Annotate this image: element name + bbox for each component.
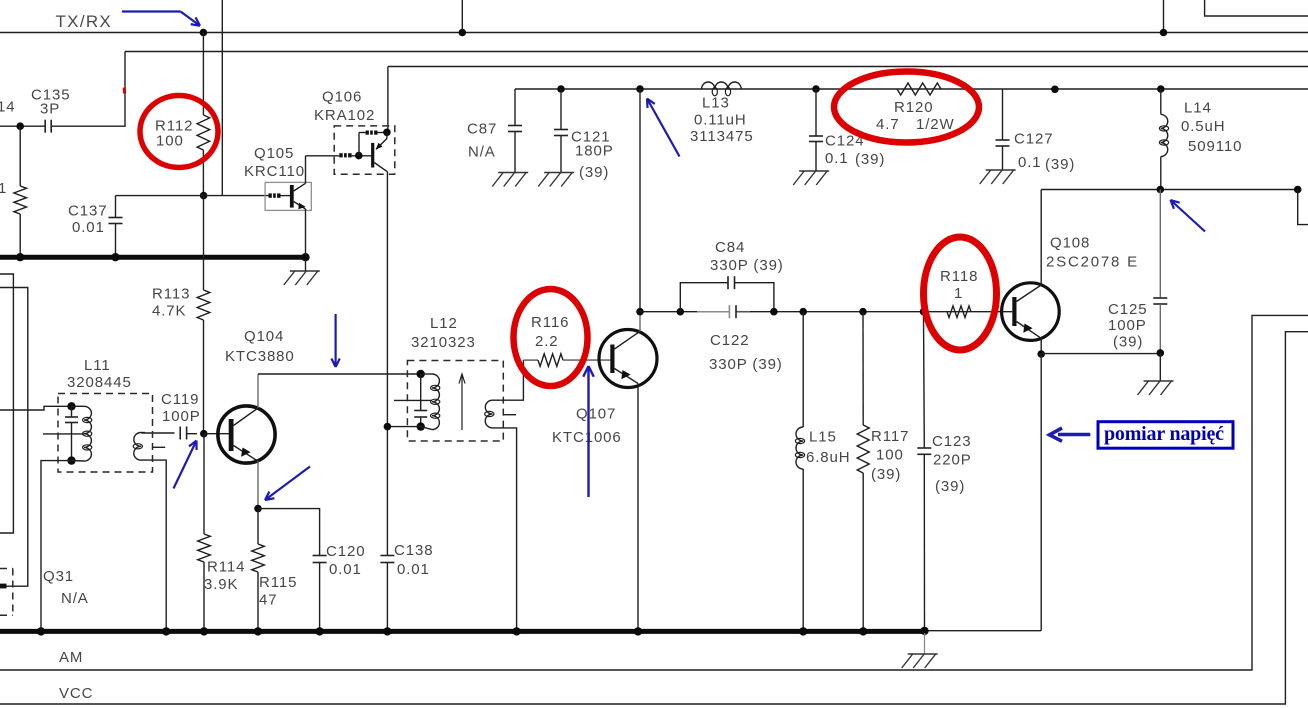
resistor left edge (partial) (14, 126, 27, 255)
wire C120 branch (258, 509, 320, 556)
node dot L11 primary bottom (67, 456, 75, 464)
inductor L14 (1159, 89, 1168, 190)
svg-text:Q108: Q108 (1050, 234, 1090, 251)
capacitor C123 (917, 312, 931, 631)
node dot bus end x=305 (Q105 emitter) (301, 253, 309, 261)
wire L11 primary bottom to bus (41, 461, 72, 632)
annotation red ellipse around R120 (834, 72, 979, 143)
label L11 part (67, 374, 132, 391)
node junction dot TX/RX x=462 (459, 29, 467, 37)
label R116 (531, 314, 569, 331)
wire Q106 emitter resistor to emitter (378, 132, 387, 134)
svg-text:KTC1006: KTC1006 (552, 429, 622, 446)
capacitor C125 (1153, 190, 1167, 353)
label VCC (59, 685, 93, 702)
svg-text:0.11uH: 0.11uH (694, 111, 747, 128)
node bus dot C138 (383, 627, 391, 635)
label C120 (326, 543, 365, 560)
wire long vertical x=640 (639, 89, 641, 312)
wire R112 branch (202, 33, 204, 196)
svg-text:100P: 100P (162, 408, 201, 425)
label C137 value (72, 219, 105, 236)
label C120 value (329, 561, 362, 578)
node dot Q104 emitter junction (254, 505, 262, 513)
node bus dot R114 (200, 627, 208, 635)
wire L11 primary top from left edge (0, 406, 72, 410)
svg-text:R116: R116 (531, 314, 569, 331)
label C121 note (579, 164, 609, 181)
label R120 value (876, 116, 955, 133)
transistor Q107 base bar (610, 345, 614, 374)
label R112 value (156, 132, 184, 149)
svg-text:0.01: 0.01 (329, 561, 362, 578)
wire left nested corner B (0, 288, 28, 587)
wire thick bus upper left (0, 255, 306, 260)
svg-text:3.9K: 3.9K (204, 576, 238, 593)
capacitor C121 (554, 89, 568, 173)
label C84 value (710, 257, 784, 274)
wire Q107/Q108 net y=311.7 (640, 311, 1012, 313)
svg-text:R117: R117 (871, 428, 909, 445)
svg-text:L13: L13 (702, 94, 730, 111)
label partial 1 (0, 180, 7, 197)
transistor Q106 emitter arrow (PNP) (376, 132, 387, 149)
svg-text:(39): (39) (1113, 333, 1143, 350)
node dot L12 primary top (417, 370, 425, 378)
svg-text:2.2: 2.2 (535, 333, 559, 350)
wire Q105 base internal (281, 195, 291, 197)
annotation blue arrow TX/RX (122, 12, 200, 26)
label R118 value (954, 285, 963, 302)
label C127 (1014, 130, 1053, 147)
svg-text:R115: R115 (259, 574, 297, 591)
label R115 (259, 574, 297, 591)
node dot C125 bottom (1157, 349, 1165, 357)
svg-text:C120: C120 (326, 543, 365, 560)
node bus dot R115 (254, 627, 262, 635)
node dot Q107 collector junction (636, 308, 644, 316)
node junction dot TX/RX x=1163 (1160, 29, 1168, 37)
node bus dot Q107 emitter (634, 627, 642, 635)
label R120 (894, 99, 933, 116)
wire Q104 collector to L12 (258, 373, 421, 375)
ground C87 (492, 173, 528, 187)
wire third horizontal rail (from Q106 emitter) (388, 67, 1308, 132)
annotation red ellipse around R118 (924, 237, 997, 350)
annotation red ellipse around R116 (514, 289, 588, 386)
label Q108 part (1046, 253, 1139, 270)
svg-text:3208445: 3208445 (67, 374, 132, 391)
annotation blue arrow at L14 bottom (1171, 200, 1206, 232)
resistor R120 (897, 83, 941, 95)
wire L12 primary bottom to Q106 collector line (387, 426, 420, 428)
svg-text:509110: 509110 (1188, 138, 1242, 155)
label partial 14 (0, 98, 16, 115)
label C122 (710, 332, 749, 349)
label C125 note (1113, 333, 1143, 350)
label C135 (31, 86, 70, 103)
svg-text:14: 14 (0, 98, 16, 115)
label R117 note (871, 466, 901, 483)
transistor Q105 collector (294, 156, 306, 191)
wire Q106 collector down to C138 (386, 172, 388, 556)
wire R115 branch (257, 509, 259, 544)
resistor R118 (947, 306, 971, 318)
label C84 (715, 239, 745, 256)
svg-text:R118: R118 (940, 268, 978, 285)
label R117 (871, 428, 909, 445)
label C125 value (1108, 317, 1147, 334)
svg-text:Q31: Q31 (43, 568, 74, 585)
svg-text:0.01: 0.01 (72, 219, 105, 236)
wire L12 secondary top to R116 (493, 360, 524, 400)
label Q107 part (552, 429, 622, 446)
ground bottom bus (902, 633, 938, 668)
svg-text:L15: L15 (809, 428, 837, 445)
label L11 (84, 357, 111, 374)
svg-text:100: 100 (156, 132, 184, 149)
node dot L12 primary bottom (417, 422, 425, 430)
svg-text:Q104: Q104 (244, 328, 284, 345)
svg-text:C119: C119 (161, 391, 199, 408)
transistor Q31 base bar (partial) (0, 584, 7, 589)
label Q31 value (61, 590, 89, 607)
annotation blue arrow at C119 (174, 441, 197, 489)
svg-text:KRA102: KRA102 (314, 107, 375, 124)
transistor Q104 base bar (229, 419, 234, 451)
label C124 (825, 132, 864, 149)
svg-text:Q107: Q107 (576, 405, 616, 422)
transistor Q106 base resistor (339, 153, 351, 158)
resistor R112 (197, 115, 210, 150)
label C127 value (1018, 154, 1042, 171)
svg-text:VCC: VCC (59, 685, 93, 702)
label R115 value (259, 591, 278, 608)
svg-text:330P (39): 330P (39) (710, 257, 784, 274)
inductor L15 (795, 312, 804, 632)
transistor Q105 base resistor (269, 193, 281, 198)
wire L12 primary tap (394, 399, 432, 401)
label Q31 (43, 568, 74, 585)
capacitor C119 (142, 427, 198, 440)
capacitor C122 (697, 305, 750, 318)
label C123 value (933, 451, 972, 468)
inductor L11 secondary winding (133, 433, 142, 461)
svg-text:100P: 100P (1108, 317, 1147, 334)
svg-text:C84: C84 (715, 239, 745, 256)
node bus dot L15 (799, 627, 807, 635)
svg-text:1: 1 (954, 285, 963, 302)
wire L11 primary tap (43, 433, 84, 435)
label R114 (207, 558, 245, 575)
label Q106 part (314, 107, 375, 124)
label L12 part (411, 334, 476, 351)
resistor R114 (198, 434, 211, 632)
label L14 (1184, 99, 1212, 116)
node bus dot L11 sec gnd (162, 627, 170, 635)
label Q108 (1050, 234, 1090, 251)
svg-text:(39): (39) (579, 164, 609, 181)
annotation pomiar napiec box (1098, 422, 1233, 449)
label L14 value (1181, 118, 1226, 135)
ground C127 (980, 170, 1016, 184)
svg-text:L11: L11 (84, 357, 111, 374)
svg-text:C137: C137 (68, 202, 107, 219)
node dot Q106 base (355, 152, 363, 160)
annotation blue arrow pomiar (1050, 428, 1091, 441)
label L13 (702, 94, 730, 111)
label L15 value (806, 449, 851, 466)
label AM (59, 649, 83, 666)
node dot L14 top (1157, 85, 1165, 93)
capacitor C87 (508, 89, 522, 173)
ground C125 (1138, 353, 1174, 395)
svg-text:N/A: N/A (468, 143, 496, 160)
transistor Q105 emitter (294, 202, 306, 255)
transistor Q108 base bar (1012, 297, 1016, 326)
svg-text:KRC110: KRC110 (244, 163, 305, 180)
wire Q105 collector to Q106 base (306, 155, 340, 157)
annotation red tick (123, 88, 126, 94)
label Q105 part (244, 163, 305, 180)
svg-text:L14: L14 (1184, 99, 1212, 116)
wire left nested corner A (0, 274, 13, 533)
svg-text:47: 47 (259, 591, 278, 608)
svg-text:(39): (39) (1045, 156, 1075, 173)
label R114 value (204, 576, 238, 593)
wire second horizontal rail (125, 51, 1308, 53)
transistor Q104 emitter (234, 446, 259, 509)
label C138 (394, 542, 433, 559)
wire L12 secondary bottom to bus (493, 428, 517, 631)
wire Q108 emitter down to bus (1040, 354, 1042, 631)
node dot C123 top (920, 308, 928, 316)
node dot L14 bottom (1157, 186, 1165, 194)
ground C124 (793, 171, 829, 185)
label C123 note (935, 478, 965, 495)
label R113 value (152, 302, 186, 319)
inductor L13 (702, 82, 742, 96)
svg-text:3113475: 3113475 (690, 128, 754, 145)
label net TX/RX (56, 12, 113, 31)
wire top stub at x=222 down to Q105 base wire (221, 0, 223, 196)
label L13 part (690, 128, 754, 145)
wire L12 tuning arrow (459, 374, 465, 430)
label R118 (940, 268, 978, 285)
ground under Q105 (284, 260, 320, 286)
label C122 value (709, 356, 783, 373)
transistor Q106 b-e resistor (366, 130, 378, 135)
label C119 value (162, 408, 201, 425)
wire Q108 collector net y=189.5 (1041, 189, 1298, 191)
svg-text:3P: 3P (40, 100, 60, 117)
wire main upper net y=89 (515, 88, 1308, 90)
wire top stub x=1163 (1163, 0, 1165, 33)
capacitor C127 (996, 89, 1010, 170)
svg-text:TX/RX: TX/RX (56, 12, 113, 31)
node dot L11 primary top (67, 402, 75, 410)
capacitor C135 (45, 120, 51, 133)
label L13 value (694, 111, 747, 128)
transistor Q107 collector (615, 312, 641, 349)
node bus dot C120 (315, 627, 323, 635)
node dot C84 left (677, 308, 685, 316)
svg-text:0.5uH: 0.5uH (1181, 118, 1226, 135)
svg-text:1/2W: 1/2W (916, 116, 955, 133)
svg-text:4.7K: 4.7K (152, 302, 186, 319)
inductor L11 primary winding (72, 406, 92, 461)
ground C121 (538, 173, 574, 187)
node dot C84 right (770, 308, 778, 316)
label Q104 (244, 328, 284, 345)
transistor Q31 dashed box (partial) (0, 569, 13, 616)
wire top-right corner (1205, 0, 1308, 16)
capacitor C120 (313, 556, 327, 632)
label C121 (571, 128, 610, 145)
svg-text:pomiar napięć: pomiar napięć (1104, 423, 1224, 445)
svg-text:Q106: Q106 (322, 88, 362, 105)
transistor Q105 box (265, 182, 311, 210)
wire Q104 base (204, 433, 229, 435)
label Q106 (322, 88, 362, 105)
inductor L12 secondary winding (485, 400, 494, 428)
capacitor C84 branch (680, 276, 774, 312)
svg-text:R113: R113 (152, 285, 190, 302)
label C121 value (575, 142, 614, 159)
annotation blue arrow up at Q107 base (583, 366, 594, 497)
svg-text:4.7: 4.7 (876, 116, 900, 133)
inductor L12 dashed box (407, 361, 503, 442)
node dot C124 top (812, 85, 820, 93)
wire L12 secondary stub (503, 414, 516, 416)
label R117 value (876, 446, 904, 463)
resistor R116 (523, 354, 610, 367)
wire thick bottom bus (0, 629, 925, 634)
label R113 (152, 285, 190, 302)
svg-text:(39): (39) (855, 151, 885, 168)
label L15 (809, 428, 837, 445)
wire Q108 emitter net (1041, 353, 1160, 355)
node junction dot TX/RX x=203 (200, 29, 208, 37)
transistor Q108 circle (1002, 283, 1060, 341)
label R116 value (535, 333, 559, 350)
node dot L15 top (799, 308, 807, 316)
node dot Q106 emitter (383, 129, 391, 137)
label L14 part (1188, 138, 1242, 155)
transistor Q107 circle (599, 330, 657, 388)
resistor R113 (197, 196, 210, 434)
svg-text:Q105: Q105 (254, 145, 294, 162)
svg-text:100: 100 (876, 446, 904, 463)
label Q107 (576, 405, 616, 422)
transistor Q106 base bar (371, 143, 374, 168)
label C127 note (1045, 156, 1075, 173)
label C138 value (397, 561, 430, 578)
capacitor L11 internal (65, 406, 78, 460)
transistor Q104 collector (234, 374, 259, 426)
node dot bus x=115 (111, 253, 119, 261)
svg-text:C122: C122 (710, 332, 749, 349)
label C135 value (40, 100, 60, 117)
transistor Q105 base bar (290, 185, 294, 208)
node dot Q108 emitter junction (1037, 350, 1045, 358)
node bus dot L11 gnd (37, 627, 45, 635)
capacitor C138 (380, 556, 394, 632)
wire TX/RX horizontal rail (0, 32, 1308, 34)
wire C135 net (0, 125, 126, 127)
svg-text:C138: C138 (394, 542, 433, 559)
annotation blue arrow down at Q104 (331, 314, 339, 367)
node dot C119/R113/Q104 base (200, 430, 208, 438)
svg-text:(39): (39) (871, 466, 901, 483)
svg-text:R114: R114 (207, 558, 245, 575)
node bus end dot (920, 627, 928, 635)
label C137 (68, 202, 107, 219)
transistor Q104 circle (218, 406, 275, 463)
svg-text:C125: C125 (1108, 301, 1147, 318)
svg-text:KTC3880: KTC3880 (225, 348, 295, 365)
svg-text:1: 1 (0, 180, 7, 197)
svg-text:0.1: 0.1 (1018, 154, 1042, 171)
svg-text:3210323: 3210323 (411, 334, 476, 351)
svg-text:0.1: 0.1 (825, 150, 849, 167)
svg-text:L12: L12 (430, 315, 458, 332)
label C124 note (855, 151, 885, 168)
svg-text:C127: C127 (1014, 130, 1053, 147)
node bus dot L12 sec (512, 627, 520, 635)
node dot junction x=387 y=427 (384, 423, 392, 431)
wire corner x=125 down to C135 (124, 52, 126, 127)
transistor Q108 collector (1017, 190, 1042, 302)
svg-text:0.01: 0.01 (397, 561, 430, 578)
svg-text:2SC2078 E: 2SC2078 E (1046, 253, 1139, 270)
svg-text:R120: R120 (894, 99, 933, 116)
label C123 (932, 433, 971, 450)
capacitor C137 (109, 196, 123, 255)
svg-text:180P: 180P (575, 142, 614, 159)
capacitor L12 internal (414, 374, 427, 427)
resistor R117 (857, 312, 869, 632)
wire L11 secondary stub (152, 446, 165, 448)
wire collector net right corner (1298, 190, 1308, 225)
transistor Q106 collector (374, 163, 387, 172)
label L12 (430, 315, 458, 332)
node dot R117 top (859, 308, 867, 316)
wire VCC rail (0, 332, 1308, 704)
annotation blue arrow at Q104 emitter (265, 467, 310, 501)
resistor R115 (252, 544, 265, 631)
inductor L11 dashed box (58, 394, 153, 473)
svg-text:C87: C87 (467, 120, 497, 137)
wire thin bus extension (925, 630, 1042, 632)
transistor Q108 emitter (1017, 322, 1042, 355)
svg-text:220P: 220P (933, 451, 972, 468)
annotation blue arrow at C121 node (647, 99, 680, 157)
inductor L12 primary winding (421, 374, 440, 430)
transistor Q106 dashed box (334, 126, 395, 174)
node dot C121 top (557, 85, 565, 93)
node dot collector net right (1294, 186, 1302, 194)
wire top stub at x=462 (461, 0, 463, 33)
label C124 value (825, 150, 849, 167)
node dot C135 left (16, 122, 24, 130)
svg-text:C123: C123 (932, 433, 971, 450)
svg-text:330P (39): 330P (39) (709, 356, 783, 373)
wire Q106 base to emitter resistor (359, 133, 366, 156)
node dot mystery x=1055 (1051, 86, 1059, 94)
wire L11 secondary bottom down (141, 460, 166, 631)
label Q105 (254, 145, 294, 162)
